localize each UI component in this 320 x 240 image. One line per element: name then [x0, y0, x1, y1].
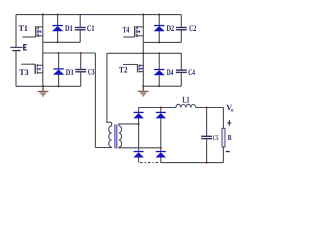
ground right [138, 86, 149, 96]
junction T2 source at bottom rail right [142, 85, 144, 87]
svg-text:T1: T1 [19, 23, 28, 33]
diode bridge top-right [156, 112, 167, 119]
inductor L1 [176, 104, 196, 107]
wire secondary top lead [119, 124, 139, 126]
diode D3 [53, 53, 64, 86]
ground left [38, 86, 49, 96]
transformer secondary winding [119, 126, 122, 148]
capacitor C3 [75, 53, 86, 86]
svg-text:T3: T3 [19, 67, 28, 77]
diode bridge top-left [133, 112, 144, 119]
svg-text:T2: T2 [119, 65, 128, 75]
svg-text:C2: C2 [189, 23, 196, 33]
junction C5 top at output node [206, 106, 208, 108]
wire right midpoint node [107, 52, 181, 54]
wire left leg vertical [42, 15, 44, 87]
battery E [10, 47, 22, 52]
wire rectifier left column [138, 108, 140, 163]
junction T1 drain at top rail [42, 14, 44, 16]
capacitor C1 [75, 15, 86, 43]
wire top rail [16, 14, 181, 16]
junction C3 top at left midpoint node [80, 52, 82, 54]
svg-text:T4: T4 [123, 24, 130, 34]
resistor R [222, 128, 225, 147]
svg-text:L1: L1 [182, 95, 189, 105]
wire battery left vertical bottom [15, 51, 17, 86]
svg-text:R: R [228, 133, 232, 142]
wire output right vertical bottom [222, 147, 224, 163]
label Vo [226, 103, 234, 114]
label minus [226, 151, 230, 152]
svg-text:D1: D1 [65, 23, 73, 33]
wire bottom rail right [143, 85, 181, 87]
junction D1 anode at box bottom [57, 41, 59, 43]
wire output right vertical top [222, 108, 224, 129]
diode D1 [52, 15, 63, 43]
transistor T3 [21, 64, 43, 74]
transformer core [115, 124, 117, 148]
wire bottom rail left [16, 85, 81, 87]
svg-text:D2: D2 [166, 23, 174, 33]
junction D4 cathode at right midpoint node [158, 52, 160, 54]
wire output top [196, 107, 224, 109]
capacitor C4 [176, 53, 187, 86]
junction D2 anode at box bottom [158, 41, 160, 43]
label plus [227, 122, 231, 123]
wire right feeder to transformer primary top [107, 53, 112, 122]
junction secondary bottom lead at right column [160, 147, 162, 149]
wire rectifier right column [160, 108, 162, 163]
junction D2 cathode at top rail [158, 14, 160, 16]
wire primary bottom lead [95, 146, 111, 148]
capacitor C2 [176, 15, 187, 43]
transistor T1 [22, 26, 42, 37]
svg-text:C1: C1 [87, 23, 95, 33]
junction D4 anode at bottom rail right [158, 85, 160, 87]
diode D4 [154, 53, 165, 86]
svg-text:D4: D4 [167, 67, 174, 77]
diode bridge bottom-right [156, 151, 167, 158]
diode bridge bottom-left [133, 151, 144, 158]
junction D1 cathode at top rail [57, 14, 59, 16]
wire battery left vertical top [15, 15, 17, 47]
diode D2 [154, 15, 165, 43]
wire right leg vertical [142, 15, 144, 87]
transistor T2 [123, 65, 143, 73]
capacitor C5 [201, 108, 212, 163]
wire secondary bottom lead [119, 146, 161, 149]
transformer primary winding [109, 123, 112, 148]
junction T2 drain at right midpoint node [142, 52, 144, 54]
wire D2 C2 box bottom [143, 41, 181, 43]
junction T4 drain at top rail [142, 14, 144, 16]
junction C5 bottom at output return [206, 162, 208, 164]
junction D3 anode at bottom rail left [58, 85, 60, 87]
transistor T4 [123, 26, 143, 37]
svg-text:D3: D3 [66, 67, 74, 77]
junction D3 cathode at left midpoint node [58, 52, 60, 54]
junction secondary top lead at left column [138, 123, 140, 125]
junction rectifier top node [160, 106, 162, 108]
wire D1 C1 box bottom [43, 41, 80, 43]
junction ground stub at bottom rail left [42, 85, 44, 87]
wire rectifier bottom node dashed [140, 162, 161, 164]
wire left feeder to transformer primary bottom [94, 53, 96, 148]
svg-text:C3: C3 [88, 67, 95, 77]
wire rectifier top node [139, 107, 176, 109]
svg-text:C5: C5 [213, 134, 219, 142]
svg-text:C4: C4 [188, 67, 195, 77]
wire output bottom [161, 162, 224, 164]
wire left midpoint node [43, 52, 96, 54]
label E [23, 44, 27, 50]
